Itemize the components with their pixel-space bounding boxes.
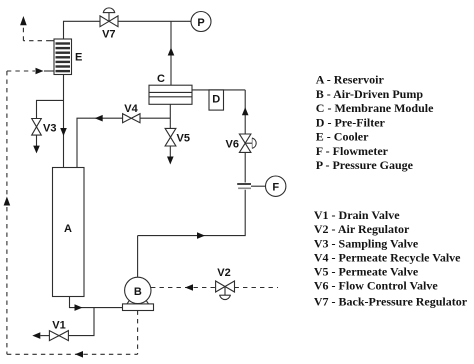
dashed air line left vertical [6,71,8,354]
pressure gauge P [191,12,211,32]
wire: flowmeter connector [251,185,266,187]
wire: top retentate line right segment to pressure gauge [118,20,191,22]
svg-text:D: D [212,94,220,106]
arrow left V1 outlet [32,332,40,339]
wire: V1 outlet [40,335,49,337]
svg-text:V6 - Flow Control Valve: V6 - Flow Control Valve [314,279,438,293]
legend: valve list [314,208,468,309]
pre-filter D [209,90,224,110]
svg-text:V3: V3 [43,123,56,135]
dashed air vent line from cooler top [23,25,50,41]
flowmeter F [266,176,286,196]
wire: V4 to permeate junction [140,117,170,119]
svg-text:A - Reservoir: A - Reservoir [316,73,385,87]
svg-text:B: B [134,286,142,298]
dashed air supply line right of V2 [235,287,279,289]
reservoir A [53,168,85,297]
membrane module C [149,85,192,104]
arrow up on module riser [168,48,175,56]
wire: sampling branch to V3 [37,100,64,118]
svg-text:V2: V2 [217,267,230,279]
svg-text:F: F [272,182,279,194]
svg-text:V4: V4 [124,103,138,115]
cooler E [51,39,72,75]
svg-text:E: E [75,52,82,64]
valve V2 air regulator [216,281,235,300]
arrow down V5 outlet [167,157,174,165]
svg-text:V5 - Permeate Valve: V5 - Permeate Valve [314,264,419,278]
svg-text:V4 - Permeate Recycle Valve: V4 - Permeate Recycle Valve [314,251,461,265]
svg-text:V1: V1 [52,319,65,331]
svg-text:C: C [157,73,165,85]
wire: cooler outlet down to reservoir [63,75,65,168]
svg-text:V6: V6 [226,138,239,150]
wire: permeate line from module C to V5 [169,104,171,128]
valve V4 permeate recycle [123,114,140,123]
svg-text:P: P [197,17,204,29]
svg-text:V7: V7 [102,29,115,41]
wire: drain branch down to V1 [68,308,94,336]
wire: top retentate line left segment [64,21,100,39]
svg-text:P - Pressure Gauge: P - Pressure Gauge [316,158,414,172]
svg-text:B - Air-Driven Pump: B - Air-Driven Pump [316,87,424,101]
wire: right riser from flowmeter to feed line [244,90,246,183]
svg-text:V1 - Drain Valve: V1 - Drain Valve [314,208,400,222]
svg-text:A: A [64,223,72,235]
arrow right on suction line [75,304,83,311]
dashed air line bottom horizontal [7,353,138,355]
flowmeter inline coupling [237,184,251,188]
arrow up on right riser [242,107,249,115]
wire: riser from module C to top line [170,21,172,85]
dashed air line from pump base down [137,311,139,355]
valve V3 sampling [32,119,42,136]
svg-text:V3 - Sampling Valve: V3 - Sampling Valve [314,236,419,250]
wire: feed line from pre-filter to module C [192,89,245,91]
wire: V5 outlet [169,146,171,157]
wire: riser below flowmeter down and left to pump [138,190,246,236]
valve V7 back-pressure regulator [100,8,118,27]
svg-text:E - Cooler: E - Cooler [316,130,369,144]
svg-text:V2 - Air Regulator: V2 - Air Regulator [314,222,410,236]
arrow left on bottom air line [75,351,83,358]
pump B [123,277,154,310]
wire: cooler inlet stub [44,70,51,72]
svg-text:V5: V5 [177,132,190,144]
arrow right on pump discharge [197,232,205,239]
wire: pump discharge riser [137,236,139,278]
svg-text:D - Pre-Filter: D - Pre-Filter [316,115,386,129]
svg-text:F - Flowmeter: F - Flowmeter [316,144,389,158]
wire: permeate recycle line into reservoir [77,118,123,167]
valve V5 permeate [165,128,176,146]
valve V6 flow control [239,134,256,152]
svg-text:V7 - Back-Pressure Regulator: V7 - Back-Pressure Regulator [314,295,468,309]
valve V1 drain [49,331,68,341]
arrow up on vent line [20,16,27,25]
svg-text:C - Membrane Module: C - Membrane Module [316,101,434,115]
legend: equipment list [316,73,434,173]
wire: reservoir outlet to pump suction [70,297,123,308]
arrow up on left air line [4,197,11,206]
arrow left on air line to pump [185,284,193,291]
arrow down to reservoir [60,128,67,136]
dashed air line pump to V2 [151,287,216,289]
arrow down V3 drain [33,146,40,154]
wire: V3 outlet [36,135,38,146]
dashed air supply line into cooler [7,70,35,72]
arrow right into cooler [36,68,44,75]
arrow left on recycle line [95,115,103,122]
